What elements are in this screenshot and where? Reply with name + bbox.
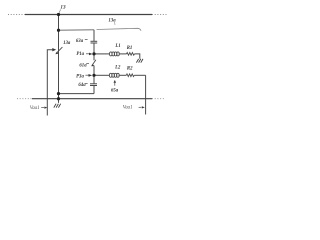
label 63a with leader dash	[76, 39, 88, 44]
capacitor 64a	[90, 84, 97, 86]
resistor R2	[126, 74, 134, 77]
wire: top supply rail 13 (solid span)	[25, 14, 152, 16]
wire: net 13a faint continuation with down hook	[97, 28, 142, 31]
wire: net 13a horizontal from junction to capacitor branch	[59, 29, 95, 31]
svg-text:R1: R1	[127, 46, 133, 51]
wire: main vertical branch from rail 13 down to ground	[58, 15, 60, 103]
wire: bottom rail (dotted left lead-in)	[17, 98, 32, 100]
svg-text:Vaa1: Vaa1	[123, 106, 133, 111]
wire: between L2 and R2	[119, 74, 127, 76]
svg-text:13: 13	[60, 4, 66, 10]
label P1a with arrow	[76, 52, 92, 57]
label Vaa1 (right input) with arrow	[123, 106, 145, 111]
node P1a junction dot	[92, 52, 95, 55]
wire: branch between capacitor 63a and transistor 61a	[93, 43, 95, 60]
svg-text:P3a: P3a	[76, 74, 84, 79]
node: junction dot on rail 13	[57, 13, 60, 16]
label 13 with leader tick	[59, 4, 66, 12]
svg-text:64a: 64a	[78, 83, 86, 88]
wire: bottom rail (dotted right lead-out)	[152, 98, 165, 100]
wire: upper resonator branch from node P1a	[94, 53, 109, 55]
wire: gate lead with input arrow (from Vaa1)	[47, 48, 56, 116]
wire: capacitor branch vertical upper section	[93, 30, 95, 42]
svg-text:L1: L1	[114, 44, 120, 49]
label 13a (top wire) with leader tick	[108, 18, 116, 25]
node P3a junction dot	[92, 74, 95, 77]
capacitor 63a	[91, 41, 98, 43]
inductor L1	[110, 52, 120, 56]
label 61a with leader dash	[79, 63, 89, 68]
ground (below bottom rail junction)	[54, 104, 61, 108]
label P3a with arrow	[76, 74, 92, 79]
wire: R1 output to ground stub	[135, 54, 140, 59]
resistor R1	[127, 53, 135, 56]
wire: branch between 61a and capacitor 64a	[93, 66, 95, 84]
svg-text:65a: 65a	[111, 89, 119, 94]
wire: top supply rail 13 (dotted right lead-out)	[152, 14, 168, 16]
label 64a with leader dash	[78, 83, 87, 88]
svg-text:13a: 13a	[63, 41, 71, 46]
node: junction dot on return wire	[57, 92, 60, 95]
label Vaa1 (left input) with arrow	[30, 106, 48, 111]
svg-text:13a: 13a	[108, 18, 116, 23]
svg-text:P1a: P1a	[76, 52, 84, 57]
label 65a with up arrow	[111, 80, 119, 94]
node: junction dot on bottom rail	[57, 97, 60, 100]
svg-text:63a: 63a	[76, 39, 84, 44]
svg-text:L2: L2	[114, 66, 121, 71]
transistor 61a (diagonal arrow element on branch)	[91, 60, 96, 67]
wire: branch below capacitor 64a	[93, 86, 95, 94]
ground (below R1)	[136, 59, 143, 63]
wire: top supply rail 13 (dotted left lead-in)	[8, 14, 25, 16]
svg-text:R2: R2	[127, 67, 133, 72]
wire: between L1 and R1	[119, 53, 127, 55]
wire: return wire to main vertical at y 93.6	[59, 93, 95, 95]
inductor L2	[109, 73, 119, 77]
wire: lower resonator branch from node P3a	[94, 74, 109, 76]
transistor 13a (arrow through main vertical line)	[56, 47, 63, 54]
svg-text:Vaa1: Vaa1	[30, 106, 40, 111]
svg-text:61a: 61a	[79, 63, 87, 68]
wire: R2 output over to right vertical	[134, 74, 145, 76]
node: junction dot net 13a	[57, 29, 60, 32]
wire: bottom rail (solid span)	[32, 98, 152, 100]
wire: right vertical Vaa1 feed through bottom rail	[145, 75, 147, 114]
